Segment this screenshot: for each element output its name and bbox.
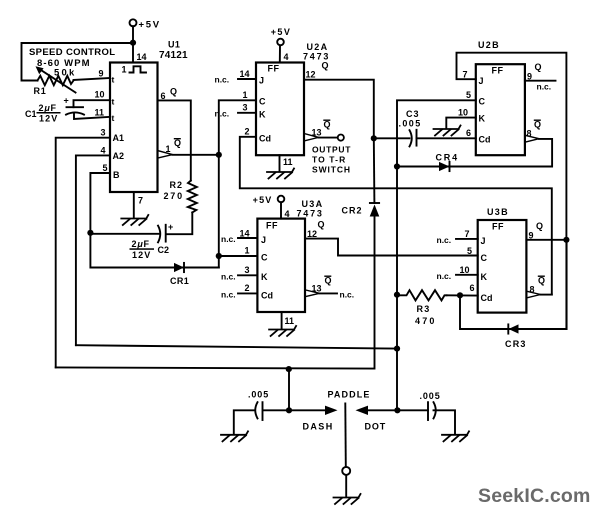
svg-text:Cd: Cd — [259, 133, 271, 143]
svg-text:t: t — [112, 97, 115, 107]
pin 3 stub — [238, 112, 256, 114]
pin 2 Cd wire to U3B Qbar — [240, 137, 552, 295]
wire dash contact — [289, 409, 326, 411]
wire to CR1 — [90, 233, 218, 268]
svg-text:Q: Q — [324, 120, 331, 130]
svg-text:U3A: U3A — [302, 199, 324, 209]
svg-text:13: 13 — [312, 128, 322, 138]
svg-text:Q: Q — [535, 62, 542, 72]
svg-text:B: B — [113, 170, 120, 180]
diode CR3 — [509, 324, 519, 333]
svg-text:C1: C1 — [25, 109, 37, 119]
wire CR3 loop — [460, 240, 567, 329]
pin 3 stub — [238, 274, 257, 276]
svg-text:11: 11 — [95, 108, 105, 118]
svg-text:CR3: CR3 — [505, 339, 527, 349]
pin 11 ground stem — [279, 155, 281, 171]
svg-text:6: 6 — [161, 91, 166, 101]
svg-text:CR1: CR1 — [170, 276, 189, 286]
+5V supply terminal U3A — [278, 196, 285, 203]
node R3 left junction — [394, 292, 400, 298]
wire paddle to ground — [345, 475, 347, 497]
svg-text:FF: FF — [266, 221, 278, 231]
wire C3 left lead — [374, 137, 410, 139]
fraction bar — [130, 248, 155, 250]
svg-text:10: 10 — [458, 108, 468, 118]
svg-text:7: 7 — [463, 70, 468, 80]
svg-text:Q: Q — [174, 138, 181, 148]
svg-text:n.c.: n.c. — [215, 75, 230, 85]
ground paddle — [334, 494, 361, 504]
svg-text:12V: 12V — [39, 114, 58, 124]
pin 4 A2 wire — [76, 155, 110, 345]
svg-text:OUTPUT: OUTPUT — [312, 145, 351, 155]
capacitor .005 dash — [255, 402, 257, 418]
pin 13 Qbar wedge — [305, 290, 319, 297]
svg-text:11: 11 — [283, 157, 293, 167]
node DASH junction — [286, 407, 292, 413]
node +5V junction — [130, 40, 136, 46]
wire Qbar nc — [320, 292, 338, 294]
svg-text:270: 270 — [164, 191, 184, 201]
svg-text:+5V: +5V — [271, 27, 291, 37]
svg-text:470: 470 — [415, 316, 437, 326]
svg-text:2: 2 — [245, 283, 250, 293]
svg-text:R3: R3 — [417, 304, 431, 314]
pin 7 ground stem — [133, 192, 135, 218]
svg-text:7473: 7473 — [297, 209, 324, 219]
capacitor C3 — [410, 130, 412, 146]
wire R2 to C2 — [167, 212, 193, 234]
wire R3 to Cd — [447, 294, 478, 296]
svg-text:74121: 74121 — [159, 50, 188, 61]
IC U3A 7473 — [257, 219, 305, 312]
ground U2B K — [434, 126, 461, 136]
svg-text:9: 9 — [529, 231, 534, 241]
svg-text:Cd: Cd — [481, 293, 493, 303]
output terminal circle — [338, 135, 344, 141]
svg-text:6: 6 — [466, 128, 471, 138]
node U3B Q junction — [563, 237, 569, 243]
svg-text:12V: 12V — [132, 250, 151, 260]
svg-text:A1: A1 — [113, 133, 125, 143]
pin 5 C wire / dot-net vertical — [397, 100, 476, 410]
svg-text:Q: Q — [325, 276, 332, 286]
svg-text:K: K — [481, 272, 488, 282]
svg-text:U3B: U3B — [487, 207, 509, 217]
svg-text:K: K — [479, 114, 486, 124]
wire — [22, 43, 134, 81]
pin 3 A1 wire — [56, 138, 110, 368]
wire pin4 — [280, 202, 282, 218]
pin 8 Qbar wedge — [527, 291, 541, 298]
svg-text:.005: .005 — [420, 391, 441, 401]
node CR4 junction — [394, 163, 400, 169]
svg-text:11: 11 — [285, 316, 295, 326]
svg-text:14: 14 — [240, 229, 250, 239]
wire A2 line — [76, 345, 397, 348]
svg-text:J: J — [481, 236, 486, 246]
svg-text:C: C — [481, 253, 488, 263]
ground U1 pin7 — [121, 215, 148, 225]
svg-text:SeekIC.com: SeekIC.com — [478, 485, 591, 507]
IC U2A 7473 — [256, 63, 304, 156]
pin 10 stub — [456, 274, 478, 276]
pin 1 Qbar wedge — [158, 151, 173, 158]
resistor R2 — [188, 181, 197, 213]
wire cap to dash node — [263, 409, 289, 411]
svg-text:Cd: Cd — [261, 291, 273, 301]
svg-text:4: 4 — [284, 52, 289, 62]
resistor R3 — [397, 290, 447, 300]
svg-text:U1: U1 — [168, 40, 180, 50]
svg-text:n.c.: n.c. — [221, 271, 236, 281]
wire clock bus vertical — [219, 100, 256, 267]
IC U3B 7473 — [478, 220, 527, 313]
svg-text:n.c.: n.c. — [437, 271, 452, 281]
svg-text:DASH: DASH — [303, 422, 334, 432]
svg-text:C: C — [479, 97, 486, 107]
svg-text:1: 1 — [122, 65, 127, 75]
svg-text:+: + — [168, 222, 173, 232]
wire Qbar — [173, 154, 219, 156]
svg-text:C3: C3 — [406, 109, 420, 119]
node DOT junction — [394, 407, 400, 413]
svg-text:R1: R1 — [34, 86, 47, 96]
svg-text:Q: Q — [534, 120, 541, 130]
svg-text:3: 3 — [101, 128, 106, 138]
pin 12 Q wire — [304, 80, 374, 139]
svg-text:PADDLE: PADDLE — [328, 390, 371, 400]
wire dash cap left — [234, 410, 255, 434]
svg-text:.005: .005 — [399, 119, 422, 129]
IC U1 74121 — [110, 63, 158, 193]
pin 14 stub — [238, 78, 256, 80]
IC U2B 7473 — [476, 64, 525, 155]
svg-text:14: 14 — [137, 52, 147, 62]
wire — [132, 26, 134, 62]
pin 14 stub — [238, 237, 257, 239]
ground left cap — [221, 431, 248, 441]
potentiometer arrow R1 — [39, 69, 76, 93]
svg-text:+5V: +5V — [139, 19, 161, 30]
diode CR2 — [370, 202, 379, 204]
svg-text:n.c.: n.c. — [437, 235, 452, 245]
svg-text:R2: R2 — [170, 180, 184, 190]
svg-text:8: 8 — [530, 285, 535, 295]
svg-text:10: 10 — [460, 265, 470, 275]
svg-text:9: 9 — [99, 69, 104, 79]
svg-text:6: 6 — [470, 283, 475, 293]
wire dot contact — [368, 409, 428, 411]
svg-text:3: 3 — [243, 103, 248, 113]
diode CR1 — [174, 263, 184, 272]
pin 2 stub — [238, 292, 257, 294]
ground U2A pin11 — [267, 169, 294, 179]
ground right cap — [442, 431, 469, 441]
svg-text:5: 5 — [467, 246, 472, 256]
wire Qbar to CR4 — [397, 139, 552, 167]
svg-text:t: t — [112, 75, 115, 85]
wire dot cap right — [434, 410, 456, 434]
dash contact arrow — [325, 406, 338, 415]
node R3 right junction — [457, 292, 463, 298]
pin 6 Q wire — [158, 100, 191, 180]
svg-text:+5V: +5V — [253, 195, 273, 205]
wire C2 left lead — [90, 233, 158, 235]
node U3A clock junction — [216, 253, 222, 259]
svg-text:J: J — [479, 76, 484, 86]
svg-text:1: 1 — [166, 144, 171, 154]
node B/C2 junction — [87, 230, 93, 236]
one-shot pulse symbol — [130, 66, 147, 72]
svg-text:A2: A2 — [113, 151, 125, 161]
svg-text:K: K — [261, 272, 268, 282]
pin 9 Q stub — [525, 80, 556, 82]
svg-text:7: 7 — [465, 229, 470, 239]
wire pin10 — [74, 100, 111, 107]
svg-text:n.c.: n.c. — [215, 108, 230, 118]
svg-text:DOT: DOT — [365, 422, 387, 432]
svg-text:2μF: 2μF — [132, 239, 150, 249]
svg-text:12: 12 — [307, 229, 317, 239]
svg-text:SPEED CONTROL: SPEED CONTROL — [29, 47, 115, 58]
svg-text:5: 5 — [103, 163, 108, 173]
svg-text:8: 8 — [527, 129, 532, 139]
wire C3 node to CR2 — [373, 138, 376, 203]
svg-text:FF: FF — [492, 222, 504, 232]
svg-text:n.c.: n.c. — [221, 234, 236, 244]
svg-text:1: 1 — [243, 90, 248, 100]
wire Qbar U3B — [541, 294, 552, 296]
svg-text:+: + — [64, 96, 69, 106]
svg-text:2: 2 — [245, 127, 250, 137]
svg-text:Q: Q — [170, 87, 177, 97]
svg-text:10: 10 — [95, 90, 105, 100]
svg-text:50k: 50k — [54, 68, 76, 79]
node Qbar junction — [216, 152, 222, 158]
svg-text:C: C — [261, 253, 268, 263]
svg-text:Cd: Cd — [479, 134, 491, 144]
svg-text:4: 4 — [101, 146, 106, 156]
svg-text:7: 7 — [138, 196, 143, 206]
wire U3A C pin — [219, 255, 258, 257]
svg-text:n.c.: n.c. — [537, 82, 552, 92]
svg-text:K: K — [259, 110, 266, 120]
wire CR2 vertical to A1 line — [56, 217, 375, 369]
svg-text:C2: C2 — [158, 245, 170, 255]
capacitor .005 dot — [427, 402, 429, 420]
svg-text:t: t — [112, 113, 115, 123]
pin 11 ground stem — [281, 312, 283, 329]
pin 5 B wire — [90, 173, 110, 233]
svg-text:CR4: CR4 — [436, 153, 459, 163]
svg-text:3: 3 — [245, 265, 250, 275]
svg-text:C: C — [259, 97, 266, 107]
node A1 junction — [286, 366, 292, 372]
wire pin11 — [74, 114, 110, 119]
pin 13 Qbar wedge — [304, 134, 318, 141]
svg-text:5: 5 — [466, 90, 471, 100]
node A2 junction — [394, 346, 400, 352]
svg-text:1: 1 — [245, 246, 250, 256]
paddle lever — [344, 404, 347, 467]
wire — [74, 78, 111, 80]
svg-text:Q: Q — [318, 220, 325, 230]
svg-text:TO T-R: TO T-R — [312, 155, 346, 165]
ground U3A pin11 — [269, 326, 296, 336]
diode CR4 — [439, 162, 450, 171]
svg-text:13: 13 — [312, 284, 322, 294]
wire A1 branch down — [288, 369, 290, 410]
+5V supply terminal U2A — [277, 39, 284, 46]
resistor R1 — [38, 76, 74, 85]
svg-text:Q: Q — [536, 221, 543, 231]
pin 7 stub — [456, 238, 478, 240]
pin 7 J loop wire — [457, 53, 567, 329]
svg-text:4: 4 — [285, 209, 290, 219]
pin 12 Q wire to U3B C — [305, 239, 478, 256]
svg-text:n.c.: n.c. — [340, 289, 355, 299]
svg-text:.005: .005 — [248, 390, 269, 400]
wire pin4 — [279, 45, 281, 62]
svg-text:n.c.: n.c. — [221, 289, 236, 299]
pin 8 Qbar wedge — [525, 135, 539, 142]
svg-text:Q: Q — [322, 61, 329, 71]
svg-text:FF: FF — [492, 66, 504, 76]
node C3 junction — [371, 135, 377, 141]
svg-text:FF: FF — [268, 64, 280, 74]
wire C3 to U2B Cd pin6 — [417, 137, 476, 139]
pin 10 K wire — [446, 118, 476, 128]
paddle terminal circle — [342, 467, 350, 475]
dot contact arrow — [356, 406, 369, 415]
svg-text:12: 12 — [306, 70, 316, 80]
capacitor C1 — [67, 106, 84, 108]
svg-text:J: J — [261, 235, 266, 245]
+5V supply terminal U1 — [130, 19, 137, 26]
svg-text:9: 9 — [527, 72, 532, 82]
svg-text:CR2: CR2 — [342, 206, 363, 216]
svg-text:J: J — [259, 76, 264, 86]
pin 9 Q wire — [526, 239, 566, 241]
svg-text:2μF: 2μF — [39, 103, 57, 113]
capacitor C2 — [158, 226, 160, 243]
svg-text:U2B: U2B — [478, 40, 500, 50]
fraction bar — [37, 112, 61, 114]
svg-text:SWITCH: SWITCH — [312, 165, 351, 175]
svg-text:14: 14 — [240, 69, 250, 79]
svg-text:Q: Q — [538, 276, 545, 286]
wire to output terminal — [319, 137, 338, 139]
